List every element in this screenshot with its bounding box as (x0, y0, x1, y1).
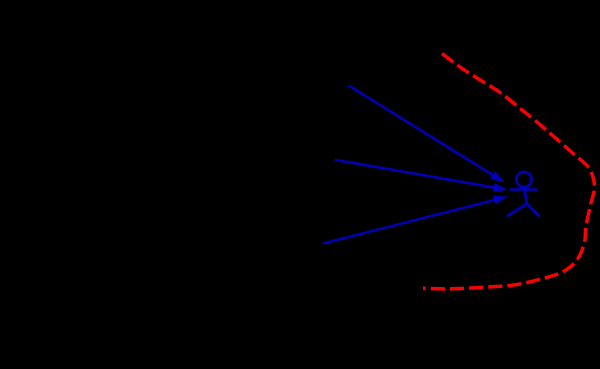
actor right leg (527, 204, 539, 216)
arrowhead 3 (493, 196, 508, 205)
actor left leg (508, 204, 527, 216)
association arrow 3 (bottom use case to actor) (323, 196, 508, 244)
arrowhead 2 (493, 183, 508, 192)
wire (323, 200, 495, 244)
wire (335, 160, 495, 188)
system boundary (red dashed freehand curve) (423, 54, 595, 289)
actor head (516, 172, 531, 187)
actor (stick figure) (508, 172, 539, 216)
association arrow 1 (top use case to actor) (349, 85, 505, 182)
wire (349, 85, 494, 175)
association arrow 2 (middle use case to actor) (335, 160, 508, 192)
arrowhead 1 (490, 171, 504, 182)
actor arms (511, 188, 537, 191)
actor body (524, 187, 527, 204)
